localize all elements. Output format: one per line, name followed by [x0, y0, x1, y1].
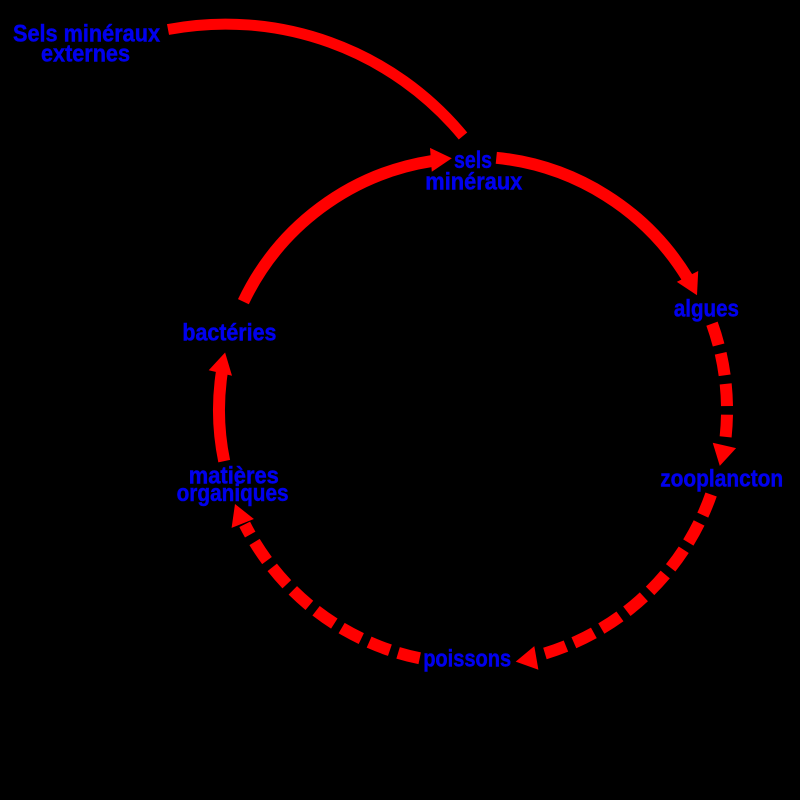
arrowhead at matières organiques	[232, 504, 254, 528]
svg-text:minéraux: minéraux	[425, 169, 523, 196]
arrowhead at poissons	[516, 646, 539, 670]
arrow: zooplancton -> poissons (dashed arc)	[545, 495, 712, 654]
svg-text:algues: algues	[674, 296, 739, 323]
arrowhead at zooplancton	[713, 443, 736, 466]
arrowhead at bactéries	[209, 353, 232, 376]
arrowhead at algues	[677, 271, 698, 295]
svg-text:bactéries: bactéries	[182, 320, 276, 347]
svg-text:externes: externes	[41, 41, 130, 68]
svg-text:zooplancton: zooplancton	[660, 465, 783, 492]
arrow: matières organiques -> bactéries (solid arc)	[219, 372, 224, 461]
arrow: sels minéraux -> algues (solid arc)	[496, 158, 687, 278]
svg-text:organiques: organiques	[177, 480, 289, 507]
arrow: algues -> zooplancton (dashed arc)	[712, 324, 727, 438]
arrow: bactéries -> sels minéraux (solid arc)	[243, 161, 432, 302]
arrowhead at sels minéraux	[430, 148, 452, 172]
svg-text:poissons: poissons	[423, 646, 511, 673]
arrow: poissons -> matières organiques (dashed arc)	[245, 524, 420, 658]
arrow: Sels minéraux externes -> sels minéraux (external input curve)	[168, 24, 463, 136]
